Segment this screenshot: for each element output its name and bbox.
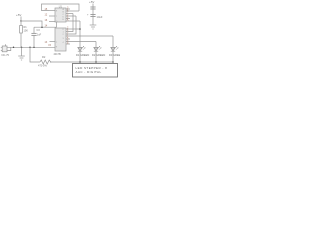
svg-text:10K: 10K (24, 30, 29, 33)
resistor R2 zigzag (40, 60, 51, 64)
junction on rail at C3 (33, 47, 35, 49)
U2 inside pin names (56, 29, 65, 48)
svg-text:NC-75: NC-75 (2, 53, 10, 57)
junction on rail at battery (13, 47, 15, 49)
U2 left pin wires (50, 41, 56, 43)
svg-text:R2: R2 (42, 55, 46, 59)
capacitor C1 (90, 7, 95, 9)
junction rail at D1 (79, 61, 81, 63)
U2 right pin numbers (67, 27, 69, 45)
svg-text:+5V: +5V (16, 13, 21, 17)
LED D3 (111, 46, 118, 62)
node junction +5V (20, 20, 22, 22)
junction rail at D2 (95, 61, 97, 63)
svg-text:LED STEPPER - 8: LED STEPPER - 8 (76, 66, 108, 70)
+5V column wire (92, 4, 94, 26)
resistor R1 (20, 21, 23, 47)
U1 right pin numbers (67, 7, 69, 22)
IC U1 box (55, 8, 66, 22)
capacitor C2 (90, 15, 95, 17)
R2 drop wire (30, 47, 40, 62)
capacitor C3 (31, 27, 36, 47)
U1 right pin stubs (66, 9, 80, 21)
background (0, 0, 120, 79)
title box (73, 64, 118, 78)
junction on rail at R2 drop (29, 47, 31, 49)
wire stub from +5V (20, 17, 22, 22)
svg-text:D2 GREEN: D2 GREEN (92, 53, 105, 57)
U2 right pin stubs (66, 29, 113, 44)
top bracket wire (reset to vcc) (42, 4, 80, 11)
junction at LED1 feed / U2 pin (79, 28, 81, 30)
svg-text:4017B: 4017B (54, 53, 62, 56)
svg-text:D3 GREEN: D3 GREEN (109, 53, 120, 57)
LED D2 (94, 46, 101, 62)
U1 left pin numbers (45, 8, 48, 22)
U1 left pin wires (49, 11, 55, 22)
U2 left pin numbers (45, 41, 52, 47)
wire +5V to IC feed (21, 21, 42, 27)
wire under IC1 (34, 26, 57, 28)
svg-text:D1 GREEN: D1 GREEN (76, 53, 89, 57)
svg-text:10uF: 10uF (97, 15, 103, 19)
junction rail at D3 (112, 61, 114, 63)
ground symbol right (90, 25, 97, 29)
svg-text:470 5%: 470 5% (38, 64, 47, 68)
U1 inside pin names (56, 8, 65, 23)
svg-text:.1uF: .1uF (36, 33, 41, 36)
IC U2 box (55, 28, 66, 51)
svg-text:+5V: +5V (89, 0, 94, 4)
connector J1 (1, 44, 11, 52)
svg-text:AAC - DIGITAL: AAC - DIGITAL (76, 70, 102, 74)
ground symbol (18, 47, 25, 60)
junction on rail at gnd (21, 47, 23, 49)
junction at feed T (41, 26, 43, 28)
LED feed verticals (80, 21, 113, 47)
LED D1 (78, 46, 85, 62)
cathode rail wire (50, 61, 113, 63)
wire IC1 bottom pin (56, 22, 58, 27)
bus verticals between ICs (66, 14, 76, 40)
ground rail wire (7, 46, 55, 48)
